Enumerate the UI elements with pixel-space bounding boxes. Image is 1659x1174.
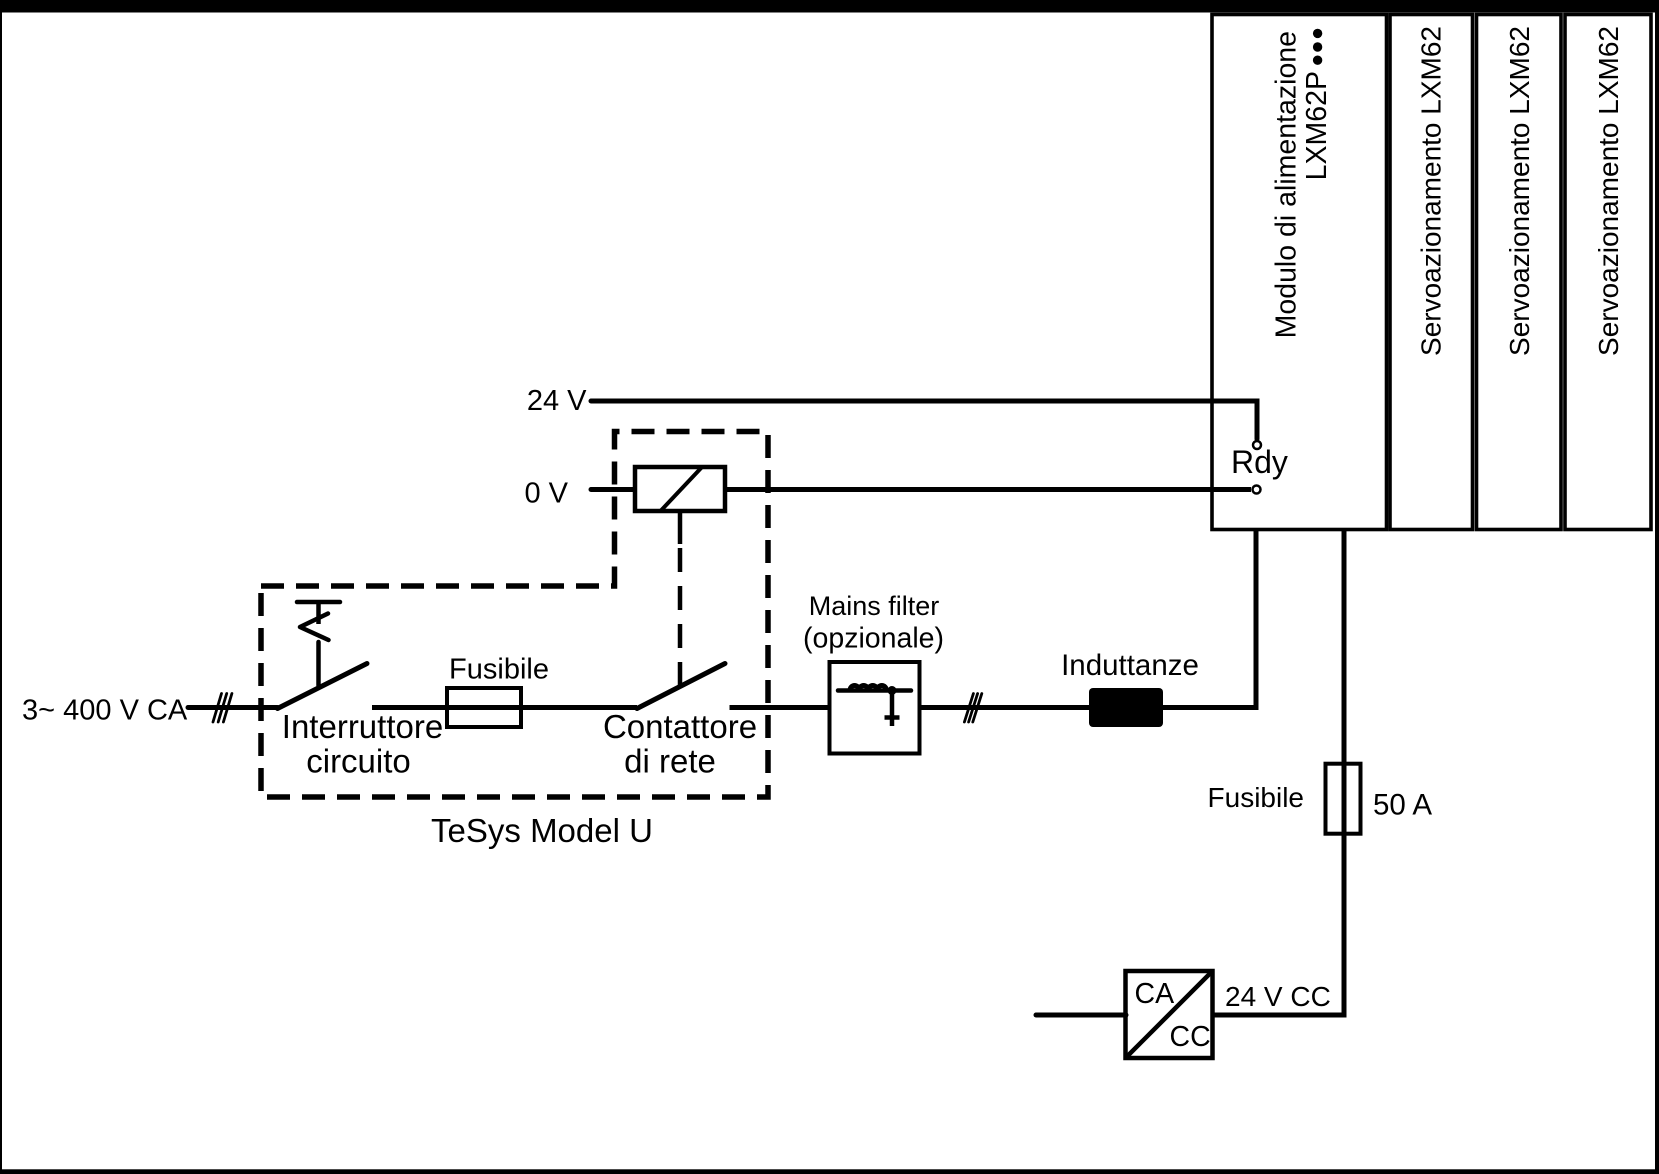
pin Rdy lower terminal <box>1253 486 1261 494</box>
svg-text:di rete: di rete <box>624 743 716 780</box>
svg-text:(opzionale): (opzionale) <box>803 623 944 655</box>
svg-text:24 V: 24 V <box>527 385 587 417</box>
three-phase slash marks (after filter) <box>964 694 981 722</box>
wire 24V supply to module <box>591 401 1257 439</box>
fuse F1 (Fusibile) <box>447 688 521 727</box>
mains filter internal capacitor to ground <box>885 691 900 727</box>
servo drive A1 box <box>1390 15 1473 530</box>
wire 0V supply to relay coil <box>591 487 635 492</box>
svg-text:50 A: 50 A <box>1373 789 1432 822</box>
mains filter Z1 box <box>830 662 920 754</box>
svg-text:Contattore: Contattore <box>603 708 757 745</box>
svg-text:Modulo di alimentazione: Modulo di alimentazione <box>1271 31 1303 338</box>
wire mains filter to inductors <box>920 705 1090 710</box>
svg-text:Servoazionamento LXM62: Servoazionamento LXM62 <box>1415 26 1446 356</box>
wire relay coil to module Rdy <box>725 487 1251 492</box>
svg-text:circuito: circuito <box>306 743 411 780</box>
svg-text:Rdy: Rdy <box>1231 444 1288 480</box>
servo drive A2 box <box>1477 15 1562 530</box>
svg-text:Fusibile: Fusibile <box>1208 782 1304 813</box>
power module U1 label dots <box>1313 29 1322 65</box>
AC/DC converter T1 box <box>1126 971 1213 1058</box>
pin Rdy upper terminal <box>1253 441 1261 449</box>
three-phase slash marks (mains input) <box>213 694 232 723</box>
svg-text:24 V CC: 24 V CC <box>1225 981 1331 1012</box>
svg-text:3~ 400 V CA: 3~ 400 V CA <box>22 695 188 727</box>
wire AC input to converter <box>1036 1013 1126 1018</box>
power module U1 box <box>1212 15 1387 530</box>
inductor L1 (Induttanze) <box>1089 688 1163 727</box>
mains filter internal inductor <box>838 686 911 691</box>
servo drive A3 box <box>1565 15 1651 530</box>
svg-text:Interruttore: Interruttore <box>282 708 443 745</box>
wire mains input <box>188 705 278 710</box>
svg-text:Fusibile: Fusibile <box>449 654 549 686</box>
mechanical link relay to contactor (dashed) <box>678 548 683 686</box>
svg-text:TeSys Model U: TeSys Model U <box>431 812 653 849</box>
wire inductors to module <box>1163 531 1256 708</box>
svg-text:CA: CA <box>1135 978 1175 1010</box>
svg-text:0 V: 0 V <box>524 478 568 510</box>
mains filter internal capacitor junction <box>888 686 897 695</box>
svg-text:Servoazionamento LXM62: Servoazionamento LXM62 <box>1593 26 1624 356</box>
wire module DC bus down <box>1212 530 1344 1016</box>
svg-text:LXM62P: LXM62P <box>1301 71 1333 180</box>
svg-text:Mains filter: Mains filter <box>809 591 940 621</box>
wire contactor to mains filter <box>730 705 830 710</box>
fuse F2 50A <box>1326 764 1361 834</box>
svg-text:CC: CC <box>1170 1021 1211 1053</box>
circuit breaker Q1 (Interruttore circuito) <box>278 602 368 709</box>
wire breaker to contactor <box>372 705 637 710</box>
svg-text:Servoazionamento LXM62: Servoazionamento LXM62 <box>1504 26 1535 356</box>
contactor K1M (Contattore di rete) <box>637 664 725 709</box>
svg-text:Induttanze: Induttanze <box>1061 649 1199 682</box>
relay coil K1 <box>635 467 725 545</box>
TeSys Model U dashed enclosure <box>261 432 768 798</box>
